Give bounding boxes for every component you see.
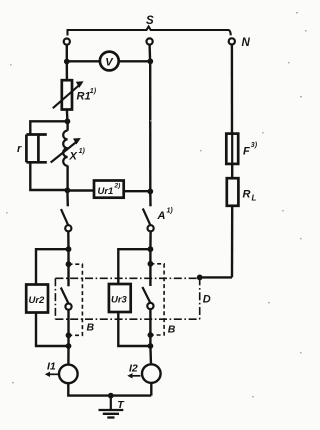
label T bbox=[117, 399, 125, 411]
junction: ground tap bbox=[108, 393, 114, 399]
svg-text:A: A bbox=[157, 210, 166, 222]
wire: right rail N to fuse bbox=[231, 45, 234, 134]
wire: Ur3 bottom branch bbox=[118, 312, 150, 346]
resistor RL bbox=[227, 178, 239, 206]
wire: r to bottom junction bbox=[30, 163, 67, 190]
wire: R1 to parallel junction bbox=[66, 110, 69, 122]
svg-text:1): 1) bbox=[90, 88, 97, 95]
chain line: coupling bottom bbox=[55, 318, 199, 320]
chain line: coupling right edge through D bbox=[199, 277, 201, 319]
wire: V meter right lead bbox=[119, 60, 151, 62]
wire: left rail from terminal to V junction bbox=[66, 45, 68, 62]
svg-text:1): 1) bbox=[167, 208, 174, 215]
switch: upper left contact bbox=[65, 225, 71, 231]
wire: branch to r (top) bbox=[30, 121, 67, 133]
voltmeter V bbox=[100, 52, 119, 71]
svg-text:R1: R1 bbox=[77, 91, 91, 103]
switch: left B contact bbox=[65, 304, 71, 310]
switch: upper left blade bbox=[61, 209, 68, 225]
svg-text:r: r bbox=[17, 143, 22, 155]
wire: switch A to branch node bbox=[149, 232, 152, 250]
svg-text:F: F bbox=[243, 146, 250, 158]
box Ur1 bbox=[94, 181, 124, 198]
switch A contact bbox=[148, 225, 154, 231]
wire: into left B switch bbox=[67, 264, 69, 286]
junction: left B box bottom bbox=[66, 332, 72, 338]
chain line: coupling top bbox=[55, 277, 199, 279]
current source I2 bbox=[142, 364, 161, 383]
junction: mid rail V tap bbox=[147, 58, 153, 64]
switch A blade bbox=[143, 209, 151, 226]
wire: mid rail B box bottom to Ur3 node bbox=[149, 335, 151, 346]
terminal N plug contact bbox=[229, 38, 235, 44]
wire: RL to corner and left to D bbox=[231, 206, 234, 278]
svg-text:Ur1: Ur1 bbox=[98, 186, 114, 197]
svg-text:B: B bbox=[87, 322, 95, 334]
wire: left rail B box bottom to Ur2 node bbox=[67, 335, 69, 346]
wire: D to right rail bbox=[200, 276, 232, 278]
junction: bottom of r/X parallel bbox=[65, 187, 71, 193]
junction: mid rail at Ur1 bbox=[147, 189, 153, 195]
wire: fuse to RL bbox=[231, 164, 233, 178]
svg-text:D: D bbox=[203, 294, 211, 306]
label X bbox=[69, 148, 86, 163]
wire: Ur2 top branch bbox=[36, 249, 69, 284]
svg-text:R: R bbox=[243, 189, 251, 201]
wire: mid B switch to box bottom bbox=[149, 309, 151, 335]
svg-text:2): 2) bbox=[114, 183, 121, 190]
wire: Ur2 bottom branch bbox=[36, 313, 69, 347]
label D bbox=[203, 294, 211, 306]
wire: V meter left lead bbox=[67, 60, 100, 62]
wire: mid rail from V tap to Ur1 junction bbox=[149, 61, 152, 191]
svg-text:Ur2: Ur2 bbox=[29, 295, 46, 306]
label RL bbox=[243, 189, 257, 203]
label A bbox=[157, 208, 174, 223]
svg-text:S: S bbox=[146, 15, 154, 27]
label F bbox=[243, 142, 258, 158]
junction: left Ur2 top branch bbox=[66, 246, 72, 252]
box Ur3 bbox=[109, 284, 131, 312]
label I2 with arrow bbox=[129, 363, 138, 375]
wire: into mid B switch bbox=[149, 264, 151, 286]
terminal: left plug contact bbox=[64, 39, 70, 45]
junction: mid B box bottom bbox=[148, 332, 154, 338]
ground T bbox=[110, 396, 112, 410]
junction: mid Ur3 top branch bbox=[148, 246, 154, 252]
wire: junction to Ur1 box bbox=[67, 189, 94, 191]
junction: mid Ur3 bottom branch bbox=[148, 343, 154, 349]
wire: Ur1 box to mid rail bbox=[124, 190, 151, 192]
fuse F bbox=[226, 134, 238, 164]
label B right bbox=[168, 324, 176, 336]
box Ur2 bbox=[26, 285, 48, 313]
wire: I2 to bottom bus bbox=[150, 383, 152, 396]
wire: mid rail to I2 bbox=[149, 346, 152, 364]
chain line: coupling left edge bbox=[54, 278, 56, 319]
svg-text:X: X bbox=[69, 151, 78, 163]
inductor X (variable) bbox=[66, 121, 68, 190]
wire: top bus S with notch bbox=[68, 27, 231, 36]
junction: top of r/X parallel bbox=[65, 118, 71, 124]
node D junction bbox=[197, 275, 203, 281]
arrow through X bbox=[51, 141, 78, 163]
switch: mid B blade bbox=[142, 287, 150, 303]
label R1 bbox=[77, 88, 97, 103]
dashed enclosure: left switch unit bbox=[69, 264, 83, 335]
junction: mid B box top bbox=[148, 261, 154, 267]
junction: left B box top bbox=[66, 261, 72, 267]
terminal: middle plug contact bbox=[147, 38, 153, 44]
wire: upper left switch to branch node bbox=[67, 232, 70, 250]
node N label bbox=[242, 37, 251, 49]
junction: left V tap bbox=[64, 59, 70, 65]
arrow through R1 bbox=[53, 84, 81, 108]
label I1 with arrow bbox=[47, 361, 56, 373]
label r bbox=[17, 143, 22, 155]
wire: mid rail to switch A bbox=[149, 191, 152, 206]
svg-text:I1: I1 bbox=[47, 361, 56, 373]
wire: mid branch node to B box top bbox=[149, 249, 151, 264]
svg-text:3): 3) bbox=[251, 142, 258, 149]
dashed enclosure: mid switch unit bbox=[150, 264, 164, 335]
switch: left B blade bbox=[61, 288, 69, 304]
svg-text:N: N bbox=[242, 37, 251, 49]
svg-text:B: B bbox=[168, 324, 176, 336]
label B left bbox=[87, 322, 95, 334]
svg-text:I2: I2 bbox=[129, 363, 138, 375]
current source I1 bbox=[59, 365, 78, 384]
wire: left rail to R1 bbox=[66, 62, 68, 81]
resistor r bbox=[26, 135, 46, 163]
svg-text:L: L bbox=[252, 194, 257, 203]
wire: left rail to I1 bbox=[67, 346, 69, 365]
svg-text:Ur3: Ur3 bbox=[111, 295, 128, 306]
wire: left B switch to box bottom bbox=[67, 310, 69, 336]
wire: I1 to bottom bus bbox=[68, 383, 151, 395]
svg-text:1): 1) bbox=[79, 148, 86, 155]
wire: Ur3 top branch bbox=[118, 249, 150, 284]
wire: mid terminal stub bbox=[148, 45, 151, 61]
wire: left rail to upper switch bbox=[66, 191, 69, 207]
junction: left Ur2 bottom branch bbox=[66, 343, 72, 349]
node S label bbox=[146, 15, 154, 27]
resistor R1 (variable) bbox=[62, 80, 72, 109]
wire: left rail branch node to B box top bbox=[67, 249, 69, 264]
switch: mid B contact bbox=[147, 303, 153, 309]
